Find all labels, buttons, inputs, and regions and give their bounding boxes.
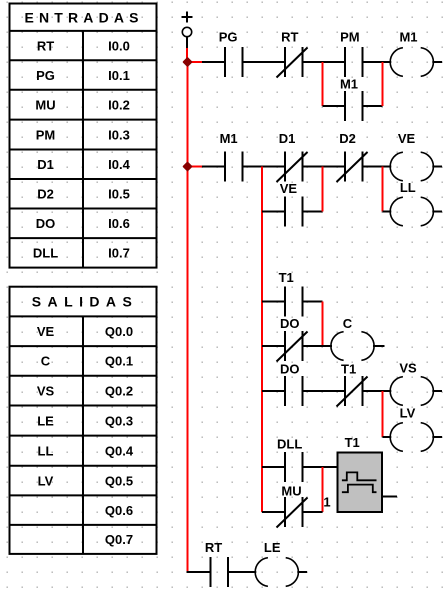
svg-text:C: C: [343, 316, 353, 331]
svg-text:D2: D2: [339, 131, 356, 146]
svg-text:RT: RT: [37, 38, 54, 53]
svg-text:LL: LL: [400, 180, 416, 195]
svg-text:T1: T1: [341, 362, 356, 377]
svg-text:I0.3: I0.3: [108, 127, 130, 142]
svg-text:VE: VE: [37, 324, 55, 339]
svg-text:LE: LE: [264, 540, 281, 555]
svg-text:Q0.7: Q0.7: [105, 532, 133, 547]
svg-text:MU: MU: [281, 484, 301, 499]
svg-text:VS: VS: [399, 361, 417, 376]
svg-text:LV: LV: [38, 473, 54, 488]
svg-text:M1: M1: [399, 30, 417, 45]
svg-text:I0.0: I0.0: [108, 38, 130, 53]
svg-text:I0.4: I0.4: [108, 157, 130, 172]
svg-text:I0.2: I0.2: [108, 97, 130, 112]
svg-text:PM: PM: [340, 30, 360, 45]
svg-text:RT: RT: [205, 540, 222, 555]
svg-text:VE: VE: [398, 131, 416, 146]
svg-text:DO: DO: [36, 216, 56, 231]
svg-text:Q0.2: Q0.2: [105, 383, 133, 398]
svg-text:DLL: DLL: [277, 437, 302, 452]
svg-text:LL: LL: [38, 443, 54, 458]
svg-text:Q0.0: Q0.0: [105, 324, 133, 339]
svg-text:DO: DO: [280, 362, 300, 377]
svg-text:PG: PG: [219, 30, 238, 45]
svg-text:Q0.1: Q0.1: [105, 354, 133, 369]
svg-text:D2: D2: [37, 187, 54, 202]
svg-text:PM: PM: [36, 127, 56, 142]
svg-text:T1: T1: [345, 435, 360, 450]
svg-text:Q0.3: Q0.3: [105, 413, 133, 428]
svg-text:T1: T1: [279, 270, 294, 285]
svg-text:I0.6: I0.6: [108, 216, 130, 231]
svg-text:DLL: DLL: [33, 246, 58, 261]
svg-text:I0.7: I0.7: [108, 246, 130, 261]
svg-text:LV: LV: [400, 406, 416, 421]
svg-text:DO: DO: [280, 316, 300, 331]
svg-text:PG: PG: [36, 68, 55, 83]
svg-text:MU: MU: [35, 97, 55, 112]
svg-text:I0.5: I0.5: [108, 187, 130, 202]
svg-text:VE: VE: [280, 181, 298, 196]
svg-text:Q0.6: Q0.6: [105, 503, 133, 518]
svg-text:M1: M1: [340, 77, 358, 92]
svg-text:D1: D1: [279, 131, 296, 146]
svg-text:Q0.5: Q0.5: [105, 473, 133, 488]
svg-text:LE: LE: [37, 413, 54, 428]
svg-text:1: 1: [323, 494, 330, 509]
svg-text:M1: M1: [220, 131, 238, 146]
svg-text:VS: VS: [37, 383, 55, 398]
svg-text:RT: RT: [281, 30, 298, 45]
svg-text:C: C: [41, 354, 51, 369]
svg-text:Q0.4: Q0.4: [105, 443, 134, 458]
svg-text:I0.1: I0.1: [108, 68, 130, 83]
svg-text:D1: D1: [37, 157, 54, 172]
